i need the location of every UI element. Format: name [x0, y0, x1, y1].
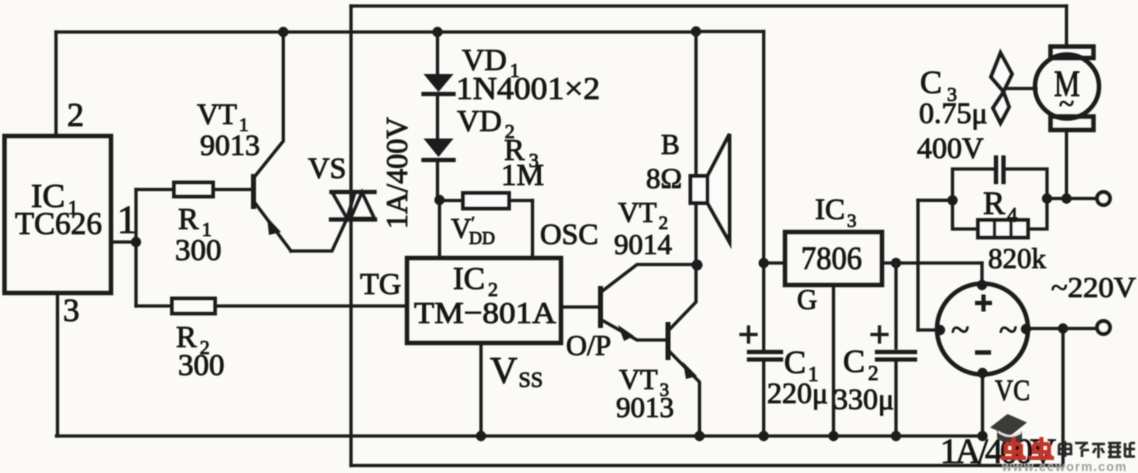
svg-text:VC: VC [995, 374, 1030, 407]
svg-text:9014: 9014 [614, 229, 673, 261]
wire: C2 top lead [894, 263, 897, 348]
junction: C2 top node [891, 258, 901, 268]
svg-text:3: 3 [63, 293, 80, 329]
watermark red characters [1001, 437, 1054, 458]
svg-text:IC3: IC3 [815, 193, 857, 232]
IC1 TC626 box [5, 136, 112, 293]
svg-text:0.75μ: 0.75μ [919, 97, 988, 130]
svg-text:7806: 7806 [801, 241, 862, 277]
junction: C1 ground [759, 431, 769, 441]
wire: speaker loop top [696, 30, 764, 33]
svg-text:300: 300 [178, 347, 225, 382]
junction: bridge minus ground [977, 431, 987, 441]
svg-text:330μ: 330μ [833, 383, 894, 416]
transistor VT2 [598, 265, 696, 342]
resistor R2 [172, 299, 215, 314]
capacitor C1 [741, 327, 781, 360]
wire: R2 right lead to TG [215, 304, 407, 307]
junction: motor AC node [1061, 193, 1071, 203]
junction: bridge plus node [977, 280, 987, 290]
wire: top VDD rail [56, 30, 696, 33]
wire: IC1 pin 1 lead [111, 240, 136, 243]
svg-text:VSS: VSS [490, 350, 543, 392]
resistor R3 [463, 193, 509, 209]
svg-text:1N4001×2: 1N4001×2 [456, 70, 600, 106]
svg-text:1A/400V: 1A/400V [379, 116, 414, 229]
wire: ground rail [57, 434, 984, 437]
fan blades [991, 53, 1036, 123]
wire: left vertical through VS [349, 6, 352, 466]
wire: IC1 pin 2 lead [54, 32, 57, 136]
svg-text:1M: 1M [501, 157, 544, 192]
bridge rectifier VC [937, 284, 1028, 375]
wire: 7806 input lead [764, 261, 785, 264]
motor M [1035, 47, 1099, 131]
resistor R1 [174, 183, 213, 197]
diode VD2 [424, 139, 454, 161]
wire: VD2 to VDD node [436, 161, 439, 200]
wire: VSS pin lead [479, 343, 482, 436]
wire: VD1-VD2 link [436, 94, 439, 139]
svg-text:9013: 9013 [200, 129, 260, 162]
svg-text:220μ: 220μ [767, 377, 828, 410]
svg-text:8Ω: 8Ω [646, 163, 682, 195]
svg-text:VS: VS [308, 152, 346, 185]
junction: C2 ground [891, 431, 901, 441]
svg-text:9013: 9013 [616, 392, 674, 424]
junction: bridge minus node [977, 368, 987, 378]
wire: motor top lead [1065, 6, 1068, 47]
svg-text:G: G [797, 285, 817, 316]
speaker B [691, 134, 730, 242]
wire: motor bottom lead [1065, 130, 1068, 199]
wire: R3 right lead [509, 199, 533, 202]
junction: 7806 input node [759, 258, 769, 268]
junction: lower AC node [1058, 323, 1068, 333]
transistor VT3 [666, 265, 700, 436]
wire: C1 top lead [762, 263, 765, 350]
svg-text:~: ~ [1059, 89, 1074, 120]
junction: R4 right node [1042, 193, 1052, 203]
wire: R3 left lead [440, 199, 464, 202]
wire: OSC pin lead [531, 201, 534, 259]
svg-text:400V: 400V [917, 132, 984, 165]
wire: VT1 emitter to gate [291, 219, 347, 252]
svg-text:B: B [661, 130, 680, 161]
wire: O/P pin lead [561, 305, 598, 308]
svg-text:www.eeworm.com: www.eeworm.com [1001, 460, 1127, 473]
wire: C1 bottom lead [762, 361, 765, 436]
wire: pin1 branch vertical [134, 190, 137, 307]
wire: 7806 output to bridge plus [882, 261, 982, 264]
watermark graduation cap [990, 414, 1027, 444]
wire: R1 right lead to VT1 base [213, 188, 251, 191]
wire: bridge plus riser [980, 263, 983, 285]
wire: bridge left AC input lead [918, 328, 939, 331]
svg-text:OSC: OSC [540, 218, 598, 251]
junction: bridge left AC node [935, 325, 945, 335]
svg-text:C2: C2 [843, 344, 879, 385]
junction: pin1 node [131, 237, 141, 247]
junction: VT1 collector / rail [278, 27, 288, 37]
svg-text:TM−801A: TM−801A [414, 295, 557, 330]
wire: diode chain top [436, 32, 439, 75]
wire: speaker feed lower [694, 203, 697, 265]
transistor VT1 [251, 174, 291, 251]
IC3 7806 box [785, 232, 882, 285]
svg-text:~: ~ [999, 312, 1017, 349]
junction: bridge right AC node [1021, 324, 1031, 334]
wire: upper AC terminal lead [1047, 197, 1098, 200]
wire: bottom AC return line [351, 464, 1063, 467]
svg-text:~: ~ [951, 312, 969, 349]
wire: right AC riser [1061, 329, 1064, 466]
wire: 7806 G pin lead [832, 285, 835, 436]
junction: diode chain / rail [432, 27, 442, 37]
junction: speaker / rail [691, 26, 701, 36]
capacitor C3 plates [996, 158, 1004, 183]
svg-text:2: 2 [67, 97, 84, 134]
IC2 TM-801A box [407, 258, 561, 343]
wire: R2 left lead [136, 304, 172, 307]
diode VD1 [424, 74, 454, 94]
junction: VT3 emitter ground [694, 431, 704, 441]
wire: VT1 collector [254, 32, 284, 178]
junction: V'DD node [434, 195, 444, 205]
svg-text:1: 1 [117, 197, 137, 242]
svg-text:R4: R4 [983, 186, 1018, 227]
resistor R4 [978, 220, 1028, 238]
svg-text:820k: 820k [988, 243, 1047, 275]
wire: top AC line (triac to motor) [351, 4, 1067, 7]
junction: G ground [828, 431, 838, 441]
svg-text:TC626: TC626 [15, 205, 102, 241]
wire: dropper vertical [916, 200, 919, 330]
svg-text:O/P: O/P [566, 330, 611, 362]
junction: R4 left node [947, 195, 957, 205]
R4/C3 parallel block [953, 169, 1048, 229]
junction: VSS ground [476, 431, 486, 441]
wire: bridge minus lead [981, 375, 984, 437]
wire: R4 left node lead [918, 199, 953, 202]
watermark site name [1059, 441, 1135, 458]
svg-text:V′DD: V′DD [451, 213, 495, 248]
wire: R1 left lead [136, 188, 174, 191]
svg-text:300: 300 [175, 232, 222, 267]
terminal: lower AC [1097, 321, 1110, 334]
wire: IC1 pin 3 lead [56, 293, 59, 436]
wire: speaker loop right vertical [762, 32, 765, 264]
triac VS [331, 192, 375, 220]
wire: V'DD pin lead [438, 200, 441, 258]
svg-text:~220V: ~220V [1051, 273, 1136, 304]
junction: VT2 collector node [692, 260, 703, 271]
svg-text:TG: TG [360, 266, 401, 301]
capacitor C2 [872, 327, 915, 360]
wire: lower AC terminal lead [1026, 327, 1099, 330]
wire: speaker feed upper [694, 32, 697, 177]
wire: C2 bottom lead [894, 361, 897, 436]
terminal: upper AC [1097, 192, 1110, 205]
